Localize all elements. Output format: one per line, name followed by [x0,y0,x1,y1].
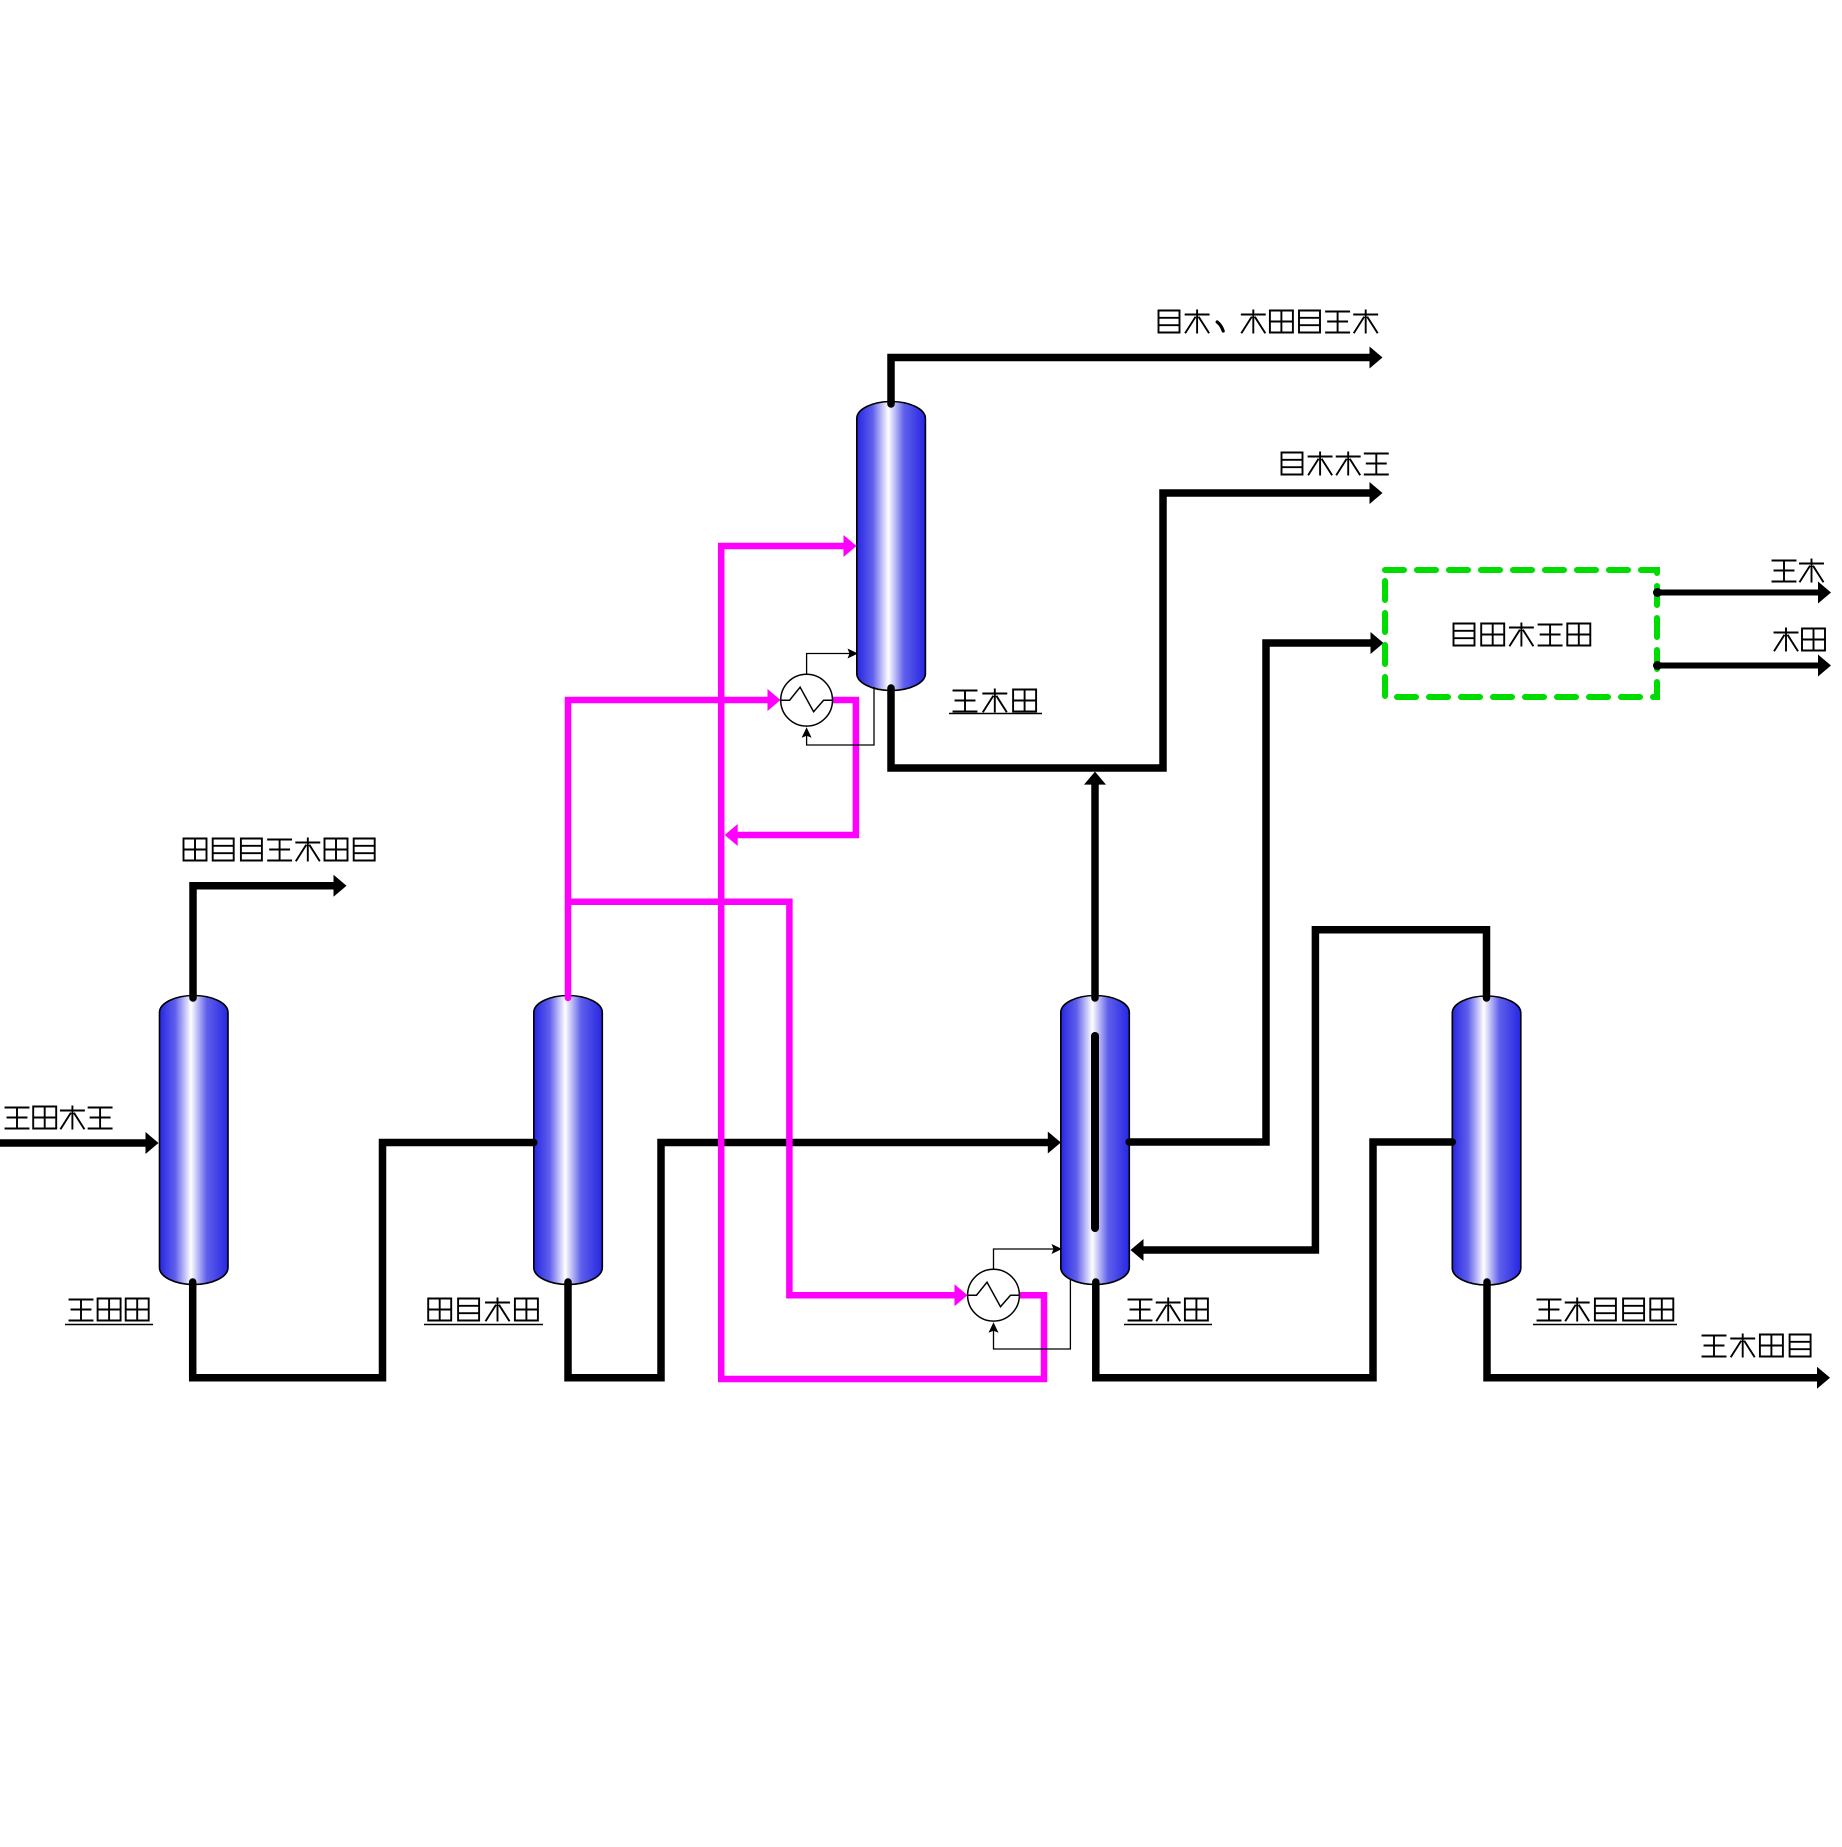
wire C5 overhead return to C4 with left arrow [1131,930,1487,1261]
heat exchanger HX1 (C3 reboiler) [781,674,833,726]
wire C1 overhead to 二甲醚 arrow [193,875,347,998]
node waste water outlet dot [1653,661,1662,670]
label 重醇组分 (heavy alcohols) [1703,1335,1811,1357]
box 分子筛脱水 molecular sieve unit (green dashed) [1385,570,1657,697]
label 乙醇回收塔 underlined [1533,1299,1677,1325]
column C1 脱气塔 (degassing column) [160,996,229,1285]
label 脱气塔 underlined [65,1299,153,1325]
label 甲醇产品 (methanol product) [1282,453,1388,475]
column C2 预分离塔 (pre-separation column) [534,996,603,1285]
wire magenta C2 overhead to HX1 with arrow [568,689,781,998]
label 废水 (waste water) [1775,629,1826,651]
wire C3 bottoms up to 甲醇产品 arrow [891,482,1383,768]
label 二甲醚等轻组分 (DME light ends) [184,839,375,861]
label 脱酯塔 underlined [949,690,1042,714]
wire magenta HX2 outlet loop and riser into C3 with arrow [721,535,1044,1379]
wire thin HX1 vapor return to C3 with arrow [807,649,858,674]
wire C4 internal dividing wall [1091,1036,1099,1228]
heat exchanger HX2 (C4 reboiler) [968,1269,1020,1321]
column C3 脱酯塔 (de-esterification column) [857,402,926,691]
label 乙醇 (ethanol) [1773,560,1824,582]
wire C4 bottoms to C5 feed [1096,1142,1453,1378]
column C5 乙醇回收塔 (ethanol recovery column) [1452,996,1521,1285]
wire thin C3 bottoms to HX1 with up arrow [802,687,874,745]
label 反应产物 (reaction product) [6,1107,112,1129]
label 预分离塔 underlined [424,1299,543,1325]
wire thin C4 bottoms to HX2 with up arrow [989,1279,1071,1349]
column C4 乙醇塔 (ethanol column) [1061,996,1130,1285]
wire 废水 outlet arrow [1657,655,1831,677]
wire thin HX2 vapor return to C4 with arrow [994,1244,1063,1269]
wire C5 bottoms to 重醇组分 arrow [1487,1282,1830,1389]
wire C3 overhead to 甲醇醋酸甲乙酯 arrow [891,347,1383,405]
wire magenta branch to HX2 with arrow [568,902,968,1306]
wire 乙醇 outlet arrow [1657,582,1831,604]
wire C4 side draw to molecular sieve box with arrow [1129,632,1383,1142]
wire magenta HX1 outlet merging into riser with left arrow [725,700,856,846]
node ethanol outlet dot [1653,588,1662,597]
label 乙醇塔 underlined [1124,1299,1212,1325]
label 甲醇、醋酸甲乙酯 [1159,311,1378,333]
wire C2 bottoms to C4 feed with arrow [568,1132,1061,1378]
wire C1 bottoms to C2 feed [193,1143,534,1378]
wire feed 反应产物 into C1 with arrow [0,1132,159,1154]
wire C4 overhead riser with up arrow into methanol line [1084,772,1106,998]
label 分子筛脱水 (molecular sieve dehydration) [1454,624,1591,646]
